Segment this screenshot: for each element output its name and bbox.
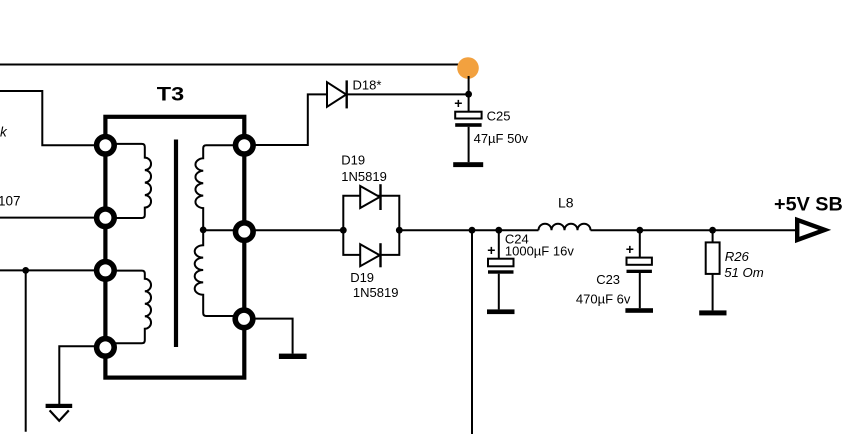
bridge loop D19 pair [343,196,399,255]
capacitor C25 [468,94,470,112]
ground C25 [453,162,483,167]
svg-text:47µF 50v: 47µF 50v [474,131,529,146]
terminal L3 [97,262,115,280]
ground C24 [487,309,515,314]
winding secondary upper [195,145,244,227]
svg-text:R26: R26 [725,249,750,264]
svg-text:1N5819: 1N5819 [341,169,387,184]
node R26 junction [709,227,716,234]
svg-text:L8: L8 [558,194,574,210]
svg-text:107: 107 [0,194,21,209]
node orange (net marker) [457,57,479,79]
svg-text:D19: D19 [350,270,374,285]
capacitor C24 [498,230,500,259]
node J2 (to lower circuit) [469,227,476,234]
transformer core [174,140,178,348]
wire D18 cathode to J1 [347,93,469,95]
wire pin4 to ground [59,346,105,404]
winding primary 2 [105,271,151,344]
svg-text:D18*: D18* [353,78,382,93]
capacitor C23 [639,230,641,257]
node C24 junction [495,227,502,234]
svg-text:51 Om: 51 Om [724,265,764,280]
svg-text:D19: D19 [341,153,365,168]
node junction on net3 [22,267,29,274]
terminal R3 [235,310,253,328]
node bridge right [396,227,403,234]
node bridge left [340,227,347,234]
svg-text:470µF 6v: 470µF 6v [576,291,631,306]
wire 107-net to transformer pin 2 [0,217,105,219]
svg-text:1N5819: 1N5819 [353,285,399,300]
svg-text:C25: C25 [487,108,511,123]
diode D19 top [360,186,380,208]
terminal R2 [236,223,254,241]
svg-text:C23: C23 [596,272,620,287]
svg-text:1000µF 16v: 1000µF 16v [505,244,574,259]
wire D18 anode branch from transformer pin [244,94,327,145]
wire R3 to ground [244,319,293,354]
svg-text:+5V SB: +5V SB [774,193,843,215]
wire J2 down to bottom edge [471,230,473,434]
svg-text:+: + [487,242,495,258]
node secondary tap [200,227,207,234]
terminal L1 [97,137,115,155]
wire junction down to bottom edge [25,270,27,431]
resistor R26 [712,230,714,242]
transformer T3 body [105,117,244,378]
wire rail L8 to arrow [591,229,796,231]
diode D19 bottom [360,244,380,266]
svg-text:+: + [626,241,634,257]
wire top rail to orange node [0,64,462,66]
diode D18 [327,82,346,107]
svg-text:+: + [454,95,462,111]
ground (bottom-left, bar+V) [46,404,73,408]
node C23 junction [636,227,643,234]
terminal L2 [97,209,115,227]
svg-text:T3: T3 [157,85,184,106]
winding primary 1 [105,144,151,218]
terminal R1 [236,137,254,155]
winding secondary lower [195,233,240,317]
ground R26 [699,310,726,315]
node J1 (D18 cathode / C25 junction) [465,91,472,98]
wire net3 to transformer pin 3 [0,269,105,271]
ground (transformer secondary) [279,354,307,359]
wire k-net to transformer pin 1 [0,91,105,145]
output arrow +5V SB [795,217,831,243]
ground C23 [625,308,653,313]
wire tap to pin R2 [203,229,244,231]
terminal L4 [97,339,115,357]
wire rail bridge to L8 [399,229,538,231]
wire orange node down to D18 output junction [468,76,470,94]
inductor L8 [539,224,591,230]
wire rail R2 to bridge [244,229,343,231]
